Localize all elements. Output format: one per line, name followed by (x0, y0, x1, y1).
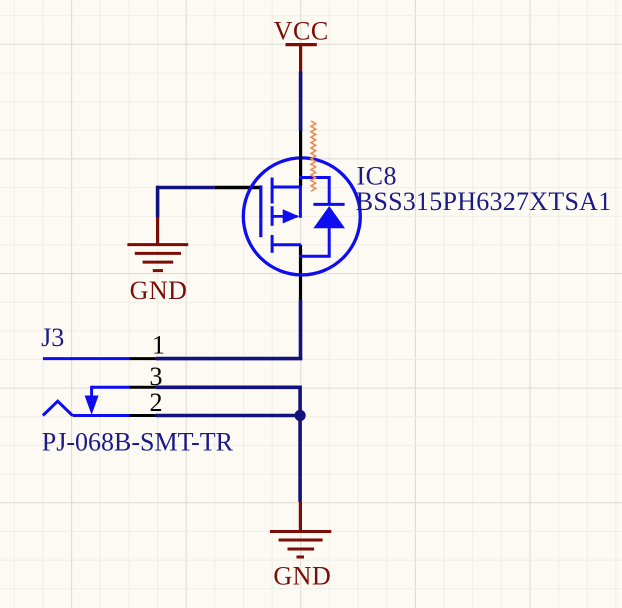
transistor IC8 drain tap (top) (272, 186, 300, 189)
body diode of IC8: top branch (299, 176, 329, 179)
svg-text:J3: J3 (41, 323, 64, 352)
transistor IC8 channel segment top (271, 178, 274, 204)
connector J3 sleeve line (pin 1 graphic) (43, 357, 129, 360)
connector J3 tip chevron (pin 2 graphic) (43, 401, 129, 415)
transistor IC8 bottom tap (272, 243, 301, 246)
transistor IC8 gate bar (259, 185, 262, 237)
body diode of IC8: triangle (313, 206, 345, 228)
transistor IC8 body circle (243, 158, 360, 275)
connector J3 pin 1 (129, 357, 156, 360)
svg-text:GND: GND (273, 562, 331, 591)
svg-text:2: 2 (150, 388, 163, 417)
svg-text:PJ-068B-SMT-TR: PJ-068B-SMT-TR (42, 428, 234, 457)
body diode of IC8: bottom branch (299, 255, 331, 258)
wire VCC net (299, 72, 303, 132)
wire gate net (158, 186, 215, 218)
connector J3 pin 3 (129, 386, 156, 389)
body diode of IC8: anode lead (328, 227, 331, 256)
svg-text:GND: GND (130, 276, 188, 305)
transistor IC8 internal source bus (299, 178, 302, 218)
svg-text:1: 1 (152, 331, 165, 360)
MOSFET IC8 pin 1 (gate) (215, 186, 261, 189)
transistor IC8 drain tap redraw over pin (272, 186, 302, 189)
power port GND (bottom) (270, 501, 331, 591)
power port GND (left) (127, 217, 188, 305)
transistor IC8 channel segment bottom (271, 235, 274, 253)
MOSFET IC8 pin 2 (drain, bottom pin) (299, 245, 302, 300)
power port VCC (274, 17, 329, 73)
connector J3 pin 2 (129, 414, 156, 417)
MOSFET IC8 pin 3 (source, top pin) (299, 131, 302, 186)
body diode of IC8: cathode bar (313, 203, 344, 206)
transistor IC8 channel segment middle (271, 206, 274, 226)
wire pin2 net (156, 414, 300, 418)
wire source net: MOSFET drain down to J3 pin 1 (156, 300, 302, 359)
transistor IC8 source tap with arrow (272, 209, 299, 223)
connector J3 switch graphic (pin 3) (85, 386, 130, 415)
wire GND net (bottom) (298, 416, 302, 503)
svg-text:VCC: VCC (274, 17, 329, 46)
junction (295, 410, 306, 421)
wire pin3 net to junction (156, 386, 300, 416)
svg-text:BSS315PH6327XTSA1: BSS315PH6327XTSA1 (356, 187, 612, 216)
ERC marker squiggle (311, 121, 316, 191)
body diode of IC8: cathode lead (328, 176, 331, 206)
